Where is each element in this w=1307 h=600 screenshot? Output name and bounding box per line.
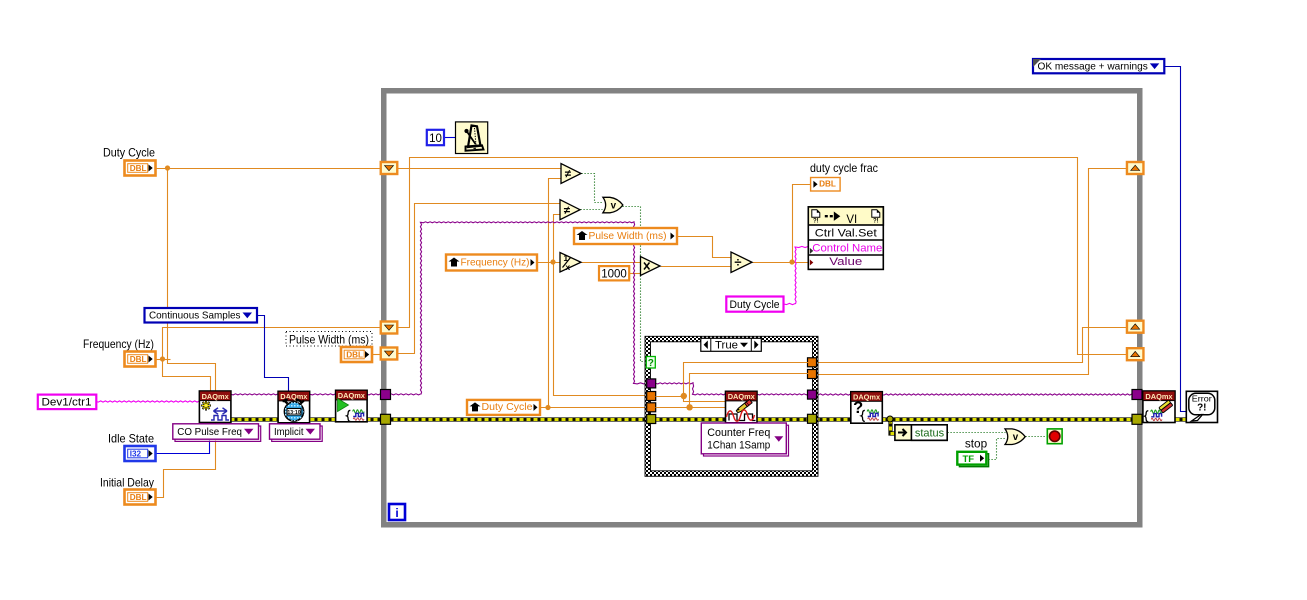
svg-text:DAQmx: DAQmx	[728, 392, 756, 401]
svg-text:i: i	[395, 506, 398, 520]
svg-text:Ctrl Val.Set: Ctrl Val.Set	[815, 228, 878, 240]
svg-text:DBL: DBL	[819, 180, 836, 189]
svg-text:True: True	[715, 340, 738, 352]
svg-text:10: 10	[429, 133, 442, 145]
svg-text:DBL: DBL	[130, 493, 147, 502]
svg-text:v: v	[1013, 432, 1019, 443]
svg-text:duty cycle frac: duty cycle frac	[810, 161, 878, 175]
svg-text:?!: ?!	[813, 219, 819, 225]
svg-text:?: ?	[853, 399, 863, 417]
svg-text:DAQmx: DAQmx	[202, 392, 230, 401]
svg-text:TF: TF	[963, 454, 975, 465]
svg-text:Counter Freq: Counter Freq	[707, 427, 770, 439]
svg-text:Pulse Width (ms): Pulse Width (ms)	[289, 333, 369, 347]
svg-text:1Chan 1Samp: 1Chan 1Samp	[707, 440, 770, 452]
svg-text:≠: ≠	[564, 205, 571, 217]
svg-text:?!: ?!	[1197, 403, 1206, 414]
svg-text:Duty Cycle: Duty Cycle	[482, 402, 533, 413]
svg-text:OK message + warnings: OK message + warnings	[1038, 61, 1148, 72]
svg-text:Continuous Samples: Continuous Samples	[149, 311, 241, 322]
svg-text:DBL: DBL	[130, 164, 147, 173]
svg-text:13:10: 13:10	[287, 410, 300, 416]
svg-text:DBL: DBL	[346, 351, 363, 360]
svg-text:?: ?	[648, 358, 654, 369]
svg-text:Value: Value	[829, 256, 862, 268]
svg-text:Frequency (Hz): Frequency (Hz)	[83, 337, 154, 351]
svg-text:CO Pulse Freq: CO Pulse Freq	[177, 426, 242, 438]
svg-text:status: status	[915, 428, 945, 440]
svg-text:Dev1/ctr1: Dev1/ctr1	[42, 397, 92, 409]
svg-text:Implicit: Implicit	[274, 426, 304, 438]
svg-text:DBL: DBL	[130, 355, 147, 364]
svg-text:Control Name: Control Name	[812, 242, 882, 254]
svg-text:Initial Delay: Initial Delay	[100, 476, 154, 490]
svg-text:DAQmx: DAQmx	[1145, 392, 1173, 401]
svg-text:Idle State: Idle State	[108, 432, 154, 446]
svg-text:Frequency (Hz): Frequency (Hz)	[461, 258, 530, 269]
svg-text:DAQmx: DAQmx	[338, 391, 366, 400]
svg-text:÷: ÷	[734, 254, 741, 269]
svg-text:Pulse Width (ms): Pulse Width (ms)	[589, 231, 667, 242]
svg-text:Duty Cycle: Duty Cycle	[103, 146, 155, 160]
svg-text:≠: ≠	[565, 169, 572, 181]
svg-text:Duty Cycle: Duty Cycle	[730, 299, 780, 311]
svg-text:I32: I32	[130, 450, 142, 459]
svg-text:x: x	[565, 262, 570, 272]
svg-text:v: v	[611, 201, 617, 212]
svg-text:?!: ?!	[873, 219, 879, 225]
svg-text:stop: stop	[965, 437, 988, 451]
svg-text:1000: 1000	[601, 268, 627, 280]
svg-text:VI: VI	[846, 214, 857, 226]
